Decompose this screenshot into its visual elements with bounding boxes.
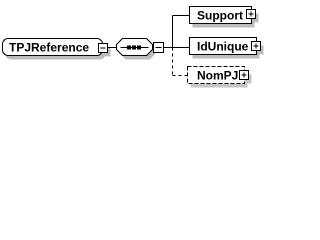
element Support shadow [193, 11, 259, 28]
element TPJReference box [3, 39, 103, 56]
collapse handle (minus) of TPJReference [99, 44, 108, 53]
expand handle (plus) of IdUnique [252, 42, 261, 51]
wire trunk to Support [173, 15, 190, 17]
element IdUnique shadow [193, 42, 264, 59]
svg-text:Support: Support [197, 9, 243, 23]
expand handle (plus) of Support [247, 10, 256, 19]
sequence compositor shadow [120, 43, 156, 60]
svg-text:NomPJ: NomPJ [197, 69, 238, 83]
element NomPJ shadow (optional element) [191, 71, 252, 88]
element Support box [190, 7, 252, 24]
trunk vertical wire (solid, up to Support branch) [172, 16, 174, 48]
svg-text:IdUnique: IdUnique [197, 40, 249, 54]
element NomPJ dashed box (optional) [188, 67, 245, 84]
sequence compositor octagon [117, 39, 153, 56]
element IdUnique box [190, 38, 257, 55]
dashed wire trunk to NomPJ [173, 75, 188, 77]
wire sequence to trunk and to IdUnique [164, 47, 190, 49]
wire TPJReference to sequence [108, 47, 118, 49]
expand handle (plus) of NomPJ [240, 71, 249, 80]
trunk vertical wire (dashed, down to NomPJ branch) [172, 48, 174, 76]
collapse handle (minus) of sequence [154, 43, 164, 53]
element TPJReference shadow [6, 43, 111, 60]
svg-text:TPJReference: TPJReference [9, 41, 89, 55]
